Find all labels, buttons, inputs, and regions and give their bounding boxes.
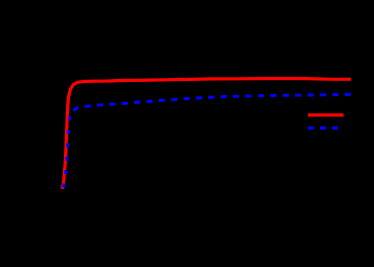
curve red solid (upper saturation curve) [62,79,351,190]
curve blue dashed, steep segment [63,111,72,189]
legend sample: red solid line [308,113,344,116]
curve blue dashed (lower saturation curve) [72,94,352,111]
legend sample: blue dashed line [308,126,344,129]
